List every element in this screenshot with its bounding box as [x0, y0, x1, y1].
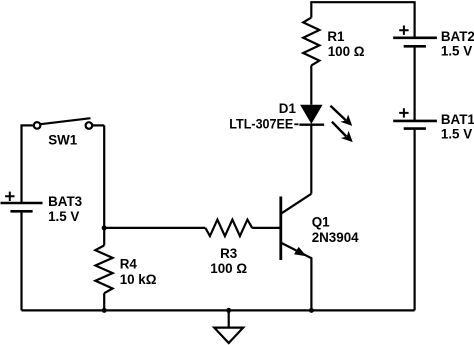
svg-text:1.5 V: 1.5 V: [48, 209, 79, 224]
svg-text:D1: D1: [279, 101, 297, 116]
svg-text:BAT3: BAT3: [48, 194, 82, 209]
svg-text:BAT1: BAT1: [441, 112, 474, 127]
svg-text:1.5 V: 1.5 V: [441, 127, 472, 142]
svg-text:100 Ω: 100 Ω: [328, 44, 365, 59]
svg-text:Q1: Q1: [312, 214, 330, 229]
svg-text:R4: R4: [120, 257, 138, 272]
svg-text:2N3904: 2N3904: [312, 230, 359, 245]
svg-text:LTL-307EE: LTL-307EE: [229, 117, 293, 132]
svg-text:100 Ω: 100 Ω: [210, 261, 247, 276]
svg-text:R1: R1: [327, 29, 345, 44]
svg-text:R3: R3: [220, 246, 237, 261]
svg-text:SW1: SW1: [48, 133, 78, 148]
svg-text:10 kΩ: 10 kΩ: [120, 272, 157, 287]
svg-text:1.5 V: 1.5 V: [441, 44, 472, 59]
svg-text:BAT2: BAT2: [441, 29, 474, 44]
